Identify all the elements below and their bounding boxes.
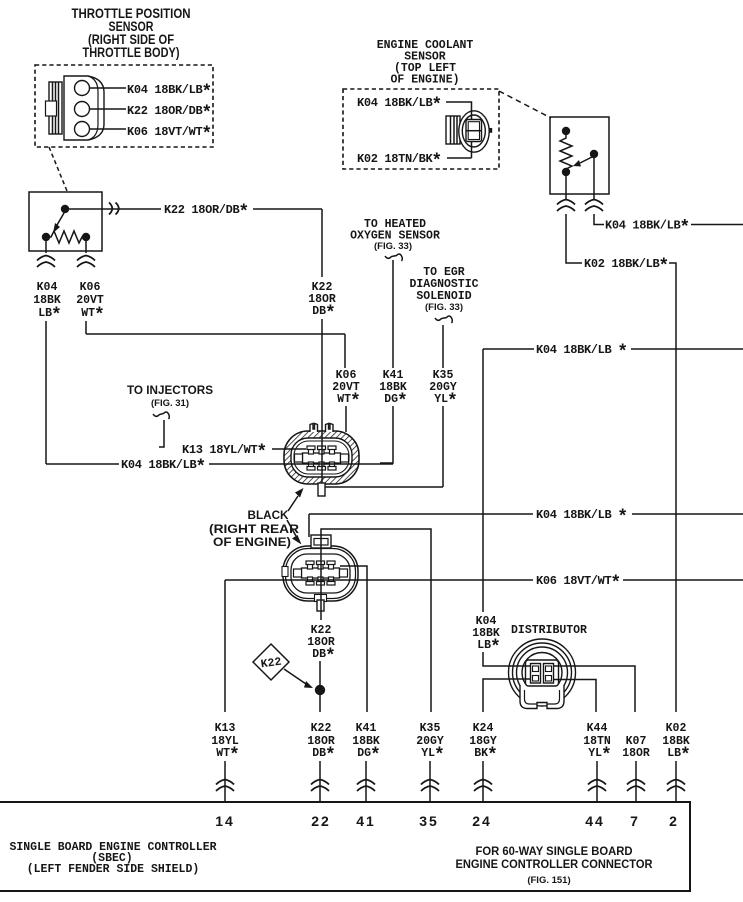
coolant sensor detail dashed box [343,89,499,169]
coolant wiper arrow [573,157,592,167]
break chevrons pin 44 [588,780,606,792]
svg-text:24: 24 [472,813,492,829]
break chevrons coolant K04 [585,200,603,212]
wire K06 into connector tab [345,406,347,432]
pin number 35 [419,813,439,829]
label K02 18BK LB bottom [662,722,691,766]
inline connector chevrons K22 [109,203,119,215]
wire K06 vertical from TPS [85,321,87,334]
wire K07 from distributor [553,666,635,712]
wire K22 vertical upper [321,209,323,277]
pin number 2 [669,813,679,829]
break chevrons K06 [77,256,95,268]
label K22 18OR/DB pin 2 [127,104,212,124]
splice node on K22 [315,685,325,695]
wire K44 from distributor [553,680,596,713]
pin number 14 [215,813,235,829]
pin number 7 [630,813,640,829]
wire K35 to pin 35 [429,761,431,801]
pin number 41 [356,813,376,829]
break chevrons pin 24 [474,780,492,792]
wire K07 to pin 7 [635,761,637,801]
svg-text:(FIG. 33): (FIG. 33) [374,241,412,252]
engine harness connector C2 oval [282,546,358,602]
svg-text:K35: K35 [420,722,441,735]
label K04 18BK/LB line 1 [536,343,628,363]
svg-text:K13: K13 [215,722,236,735]
svg-text:TO INJECTORS: TO INJECTORS [127,383,213,397]
TPS connector cavity pin 3 [75,122,90,137]
svg-text:K44: K44 [587,722,608,735]
coolant wiper node [590,150,598,158]
wire K02 to pin 2 [675,761,677,801]
wire coolant K02 down and corner [566,214,582,263]
wire K06 K13 line to right edge [225,579,743,581]
TPS connector cavity pin 1 [75,81,90,96]
wire K24 from distributor [483,679,531,712]
svg-text:OF ENGINE): OF ENGINE) [213,535,291,549]
distributor lock tab [520,685,564,709]
svg-text:41: 41 [356,813,376,829]
connector C2 index tab [311,535,331,548]
lead from pin 3 [90,128,126,130]
distributor connector rings [509,639,576,706]
label K22 18OR DB vertical wire [308,281,336,324]
injector harness connector C1 oval [284,431,359,484]
svg-text:K02: K02 [666,722,687,735]
TPS connector cavity pin 2 [75,102,90,117]
label K02 18BK/LB right [584,257,669,277]
svg-text:(LEFT FENDER SIDE SHIELD): (LEFT FENDER SIDE SHIELD) [27,863,200,876]
wire K04 into distributor [483,652,531,666]
label K04 18BK/LB right top [605,219,690,239]
label K41 18BK DG bottom [352,722,381,766]
EGR diagnostic solenoid note [409,266,478,313]
pin number 44 [585,813,605,829]
svg-text:BLACK: BLACK [248,508,289,522]
TPS connector detail dashed box [35,65,213,147]
off-page squiggle EGR [435,316,452,323]
connector C1 drain tail [318,483,325,496]
wire K13 to pin 14 [224,761,226,801]
wire K22 through C1 [321,430,323,484]
coolant sensor body ribs [446,116,460,144]
wire K44 to pin 44 [596,761,598,801]
label K41 18BK DG mid [379,369,408,412]
wire injector stub [159,420,164,447]
svg-text:THROTTLE BODY): THROTTLE BODY) [83,45,180,60]
break chevrons pin 41 [357,780,375,792]
wire K13 riser pin 14 [224,580,226,712]
svg-text:35: 35 [419,813,439,829]
svg-text:OF ENGINE): OF ENGINE) [390,74,459,87]
lead from pin 2 [90,108,126,110]
label K35 20GY YL bottom [416,722,445,766]
break chevrons pin 22 [311,780,329,792]
TPS resistor end node left [42,233,50,241]
label single board engine controller [9,841,216,876]
connector C2 drain tail [317,600,324,611]
wire through sensor [471,141,473,158]
label K04 18BK LB tps wire [33,281,62,326]
label K24 18GY BK bottom [469,722,498,766]
wire K22 to pin 22 [319,761,321,801]
wire K02 label to corner [669,263,676,712]
break chevrons K04 [37,256,55,268]
wire wiper to box bottom [593,158,595,194]
label K22 18OR/DB wire [164,203,249,223]
label DISTRIBUTOR [511,624,587,637]
wire TPS wiper to K22 [69,208,161,210]
wire K22 through splice [319,661,321,712]
throttle position sensor box [29,192,102,251]
svg-text:FOR 60-WAY SINGLE BOARD: FOR 60-WAY SINGLE BOARD [476,844,633,858]
splice diamond K22 [253,644,289,680]
coolant thermistor top node [562,127,570,135]
wire K06 horizontal run [86,333,345,335]
svg-text:7: 7 [630,813,640,829]
SBEC 60-way connector box [0,802,690,891]
engine coolant sensor heading [377,39,474,87]
wire TPS K04 stub [45,241,47,253]
wire K41 from C2 [340,566,367,712]
label 60-way connector [456,844,653,886]
label K22 18OR DB above splice [307,624,336,667]
svg-text:(FIG. 151): (FIG. 151) [527,875,570,886]
dashed leader from detail box to TPS [49,147,67,191]
wire oval1 tail to K35 [324,486,443,488]
svg-text:ENGINE CONTROLLER CONNECTOR: ENGINE CONTROLLER CONNECTOR [456,857,653,871]
TPS resistor end node right [82,233,90,241]
wire K04 into injector connector [209,463,393,465]
label K04 18BK LB distributor [472,615,501,658]
wire K04 to right edge [691,224,743,226]
injectors note [127,383,213,409]
wire TPS K06 stub [85,241,87,253]
svg-text:(RIGHT REAR: (RIGHT REAR [209,522,299,536]
label K04 18BK/LB coolant [357,96,442,116]
dashed leader coolant box to schematic [499,91,551,118]
pin number 22 [311,813,331,829]
wire coolant K04 down and corner [594,214,604,225]
label K13 18YL WT [211,722,240,766]
arrow to C1 [288,488,304,511]
wire K22 label to corner [253,208,322,210]
label K04 18BK/LB line 2 [536,508,628,528]
wire K13 into connector [272,448,306,450]
label K06 18VT/WT line [536,574,621,594]
coolant thermistor bottom node [562,168,570,176]
label K02 18TN/BK coolant [357,152,442,172]
wire K41 to pin 41 [365,761,367,801]
lead K04 to sensor [446,102,472,119]
coolant sensor box [550,117,609,194]
off-page squiggle injectors [153,412,169,419]
label K04 18BK/LB horizontal [121,458,206,478]
wire K04 horizontal to label [46,463,119,465]
wire K04 stub below box [593,194,595,199]
svg-text:K06: K06 [80,281,101,294]
wire K35 vertical to tail junction [442,406,444,487]
break chevrons pin 7 [627,780,645,792]
distributor terminal block [526,660,559,686]
coolant thermistor element [560,135,572,169]
wire K04 vertical long [45,321,47,464]
off-page squiggle heated oxygen [385,254,402,261]
wire K35 upper vertical [442,325,444,368]
TPS connector lock rib block [46,82,63,134]
wire K02 stub below box [565,194,567,199]
svg-text:22: 22 [311,813,331,829]
wire K04 line 1 to right edge [483,348,743,350]
break chevrons pin 35 [421,780,439,792]
svg-text:DISTRIBUTOR: DISTRIBUTOR [511,624,587,637]
svg-text:44: 44 [585,813,605,829]
wire K41 to connector corner [380,406,393,463]
wire K41 upper vertical [392,260,394,368]
heated oxygen sensor note [350,218,440,252]
wire K06 corner down [344,334,346,368]
break chevrons pin 14 [216,780,234,792]
connector C1 index tabs [310,424,333,433]
connector C2 terminal row [294,561,348,585]
svg-text:K41: K41 [356,722,377,735]
svg-text:(FIG. 31): (FIG. 31) [151,398,189,409]
arrow to C2 [287,520,302,545]
svg-text:K22: K22 [311,722,332,735]
break chevrons coolant K02 [557,200,575,212]
TPS wiper arrow [53,213,64,233]
TPS connector body [64,76,104,140]
throttle position sensor heading [72,6,191,60]
TPS resistor element [46,231,86,243]
svg-text:18OR: 18OR [622,747,650,760]
wire K04 vertical to distributor [482,349,484,612]
svg-text:K04: K04 [37,281,58,294]
label K35 20GY YL mid [429,369,458,412]
label K07 18OR bottom [622,735,650,760]
pin number 24 [472,813,492,829]
lead K02 to sensor [447,157,472,159]
svg-text:(FIG. 33): (FIG. 33) [425,302,463,313]
wire K24 to pin 24 [482,761,484,801]
wire K35 riser from C2 [321,529,431,712]
wire K04 drop to C2 tab [308,514,310,537]
label BLACK right rear of engine [209,508,299,549]
splice arrow [284,669,313,688]
label K06 18VT/WT pin 3 [127,125,212,145]
label K22 18OR DB bottom [307,722,336,766]
break chevrons pin 2 [667,780,685,792]
coolant sensor connector face [459,111,492,152]
label K06 20VT WT tps wire [76,281,105,326]
label K13 18YL/WT [182,443,267,463]
lead from pin 1 [90,87,126,89]
label K06 20VT WT mid [332,369,361,412]
svg-text:14: 14 [215,813,235,829]
label K44 18TN YL bottom [583,722,612,766]
wire thermistor to box bottom [565,176,567,194]
label K04 18BK/LB pin 1 [127,83,212,103]
connector C1 terminal row [295,446,349,470]
wire K04 line 2 to right edge [309,513,743,515]
svg-text:2: 2 [669,813,679,829]
svg-text:K24: K24 [473,722,494,735]
wire K22 vertical lower to connector [321,319,323,430]
TPS wiper node [61,205,69,213]
